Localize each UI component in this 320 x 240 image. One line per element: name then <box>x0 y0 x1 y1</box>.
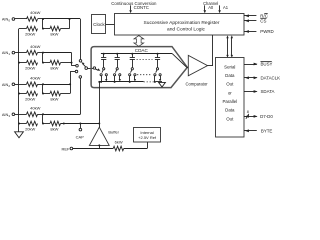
node tap channel 1 <box>42 52 44 64</box>
ground rail left <box>18 29 20 132</box>
switch for capacitor C1 <box>100 68 107 83</box>
capacitor C1 of CDAC array <box>101 53 106 68</box>
wire ground rail to 20k channel 2 <box>19 93 27 95</box>
resistor 20kW channel 3 <box>25 121 37 131</box>
comparator U2 <box>185 55 208 86</box>
mux contact channel 1 <box>76 64 79 67</box>
wire ground rail to 20k channel 1 <box>19 62 27 64</box>
mux contact channel 3 <box>79 76 82 79</box>
mux switch arm <box>81 62 86 67</box>
pin AIN1 terminal <box>2 50 15 56</box>
svg-text:20kW: 20kW <box>25 127 35 132</box>
wire 40k output to tap node channel 1 <box>38 52 44 54</box>
svg-text:Successive Approximation Regis: Successive Approximation Register <box>144 20 220 26</box>
resistor 8kW channel 3 <box>50 121 61 131</box>
wire clock to SAR <box>106 24 115 26</box>
wire channel 3 node riser to mux contact <box>43 78 81 114</box>
resistor 8kW channel 0 <box>50 26 61 36</box>
resistor 40kW channel 3 <box>27 106 41 117</box>
pin CAP terminal <box>76 123 85 140</box>
pin BYTE input <box>244 129 272 134</box>
resistor 20kW channel 2 <box>25 91 37 101</box>
svg-text:Comparator: Comparator <box>185 82 208 87</box>
wire tap to 8k channel 1 <box>43 62 50 64</box>
op-amp reference buffer <box>89 124 119 146</box>
svg-text:20kW: 20kW <box>25 66 35 71</box>
svg-text:D7-D0: D7-D0 <box>260 114 273 119</box>
svg-text:or: or <box>228 90 232 95</box>
svg-text:20kW: 20kW <box>25 32 35 37</box>
wire CDAC bottom rail to reference buffer <box>99 82 101 124</box>
resistor 6kW <box>113 139 124 150</box>
svg-text:BUSY: BUSY <box>261 62 273 67</box>
resistor 40kW channel 1 <box>27 44 41 55</box>
wire channel 0 node to mux contact <box>43 19 81 60</box>
wire tap to 8k channel 3 <box>43 123 50 125</box>
svg-text:Data: Data <box>225 108 235 113</box>
switch for capacitor C2 <box>114 68 121 83</box>
wire ground rail to 20k channel 0 <box>19 28 27 30</box>
CDAC block outline <box>91 47 187 88</box>
svg-text:20kW: 20kW <box>25 97 35 102</box>
pin A1 arrow into SAR <box>218 5 221 13</box>
wire channel 0 8k output up to input line <box>61 18 71 29</box>
svg-text:AIN0: AIN0 <box>2 17 10 23</box>
pin SDATA output <box>244 89 275 94</box>
switch for capacitor C4 <box>154 68 161 83</box>
svg-text:AIN3: AIN3 <box>2 112 10 118</box>
pin CONTC arrow into SAR <box>129 5 132 13</box>
svg-text:AIN1: AIN1 <box>2 50 10 56</box>
svg-text:40kW: 40kW <box>30 44 40 49</box>
wire AIN1 to resistor <box>15 52 27 54</box>
resistor 8kW channel 2 <box>50 91 61 101</box>
wire channel 2 8k output to riser <box>61 93 71 95</box>
mux pole <box>85 67 93 70</box>
dashed continuation switch row <box>137 74 152 76</box>
svg-text:BYTE: BYTE <box>261 129 273 134</box>
wire tap to 8k channel 2 <box>43 93 50 95</box>
pin D7-D0 parallel bus bidirectional <box>244 110 273 119</box>
resistor 40kW channel 0 <box>27 10 41 21</box>
svg-text:6kW: 6kW <box>115 139 123 144</box>
pin R/C input <box>244 14 268 19</box>
svg-text:REF: REF <box>62 146 71 151</box>
wire 6k to internal reference <box>124 142 148 149</box>
svg-text:8: 8 <box>247 110 249 114</box>
ground symbol CDAC rail <box>159 82 166 87</box>
pin BUSY output <box>244 62 273 67</box>
mux contact channel 2 <box>75 70 78 73</box>
wire 40k output to tap node channel 3 <box>38 114 44 116</box>
wire REF to 6k resistor <box>73 148 114 150</box>
capacitor C3 of CDAC array <box>130 53 135 68</box>
node buffer output on reference rail <box>98 123 100 125</box>
bus SAR to data out lines <box>226 35 233 57</box>
wire channel 1 node riser to mux contact <box>43 53 76 66</box>
pin PWRD input <box>244 29 274 34</box>
wire channel 3 8k output / reference rail <box>61 123 100 125</box>
output register Serial Data Out or Parallel Data Out <box>216 58 245 138</box>
pin AIN3 terminal <box>2 112 15 118</box>
node tap channel 2 <box>42 83 44 94</box>
CDAC top plate rail to comparator <box>101 54 188 68</box>
svg-text:Buffer: Buffer <box>108 129 119 134</box>
capacitor C2 of CDAC array <box>115 53 120 68</box>
svg-text:40kW: 40kW <box>30 106 40 111</box>
wire ground rail to 20k channel 3 <box>19 123 27 125</box>
svg-text:CS: CS <box>260 19 266 24</box>
svg-text:Out: Out <box>226 116 234 121</box>
svg-text:AIN2: AIN2 <box>2 82 10 88</box>
pin AIN2 terminal <box>2 82 15 88</box>
wire AIN3 to resistor <box>15 114 27 116</box>
svg-text:Serial: Serial <box>224 64 235 69</box>
svg-text:40kW: 40kW <box>30 10 40 15</box>
svg-text:8kW: 8kW <box>50 97 58 102</box>
svg-text:CAP: CAP <box>76 134 85 139</box>
svg-text:CDAC: CDAC <box>135 48 149 53</box>
wire 40k output to tap node channel 0 <box>38 18 44 20</box>
pin CS input <box>244 18 267 23</box>
svg-text:40kW: 40kW <box>30 76 40 81</box>
svg-text:8kW: 8kW <box>50 127 58 132</box>
svg-text:8kW: 8kW <box>50 66 58 71</box>
svg-text:PWRD: PWRD <box>260 29 273 34</box>
wire 40k output to tap node channel 2 <box>38 84 44 86</box>
internal 2.5V reference block <box>134 128 161 143</box>
ground symbol analog ground <box>15 132 24 138</box>
svg-text:CONTC: CONTC <box>134 5 149 10</box>
svg-text:Data: Data <box>225 73 235 78</box>
wire AIN0 to resistor <box>15 18 27 20</box>
dashed continuation capacitor array <box>137 58 153 60</box>
mux contact channel 0 <box>79 60 82 63</box>
pin REF terminal <box>62 146 73 151</box>
svg-text:A1: A1 <box>223 5 229 10</box>
capacitor C4 of CDAC array <box>155 53 160 68</box>
resistor 20kW channel 1 <box>25 60 37 70</box>
svg-text:+2.5V Ref: +2.5V Ref <box>138 135 157 140</box>
wire buffer input from REF line <box>98 144 100 148</box>
pin AIN0 terminal <box>2 17 15 23</box>
pin DATACLK bidirectional <box>244 76 280 81</box>
svg-text:Parallel: Parallel <box>222 99 237 104</box>
svg-text:Out: Out <box>226 82 234 87</box>
svg-text:SDATA: SDATA <box>261 89 275 94</box>
resistor 8kW channel 1 <box>50 60 61 70</box>
bus arrow SAR to CDAC <box>134 36 144 47</box>
SAR U1 Successive Approximation Register and Control Logic <box>115 14 245 36</box>
node tap channel 3 <box>42 113 44 124</box>
clock block <box>92 15 106 34</box>
svg-text:and Control Logic: and Control Logic <box>167 27 206 33</box>
pin A0 arrow into SAR <box>204 5 207 13</box>
svg-text:DATACLK: DATACLK <box>261 76 281 81</box>
svg-text:Clock: Clock <box>93 22 105 27</box>
resistor 40kW channel 2 <box>27 76 41 87</box>
svg-text:8kW: 8kW <box>50 32 58 37</box>
wire channel 1 8k output to riser <box>61 62 72 64</box>
CDAC bottom reference rail <box>98 81 162 83</box>
CDAC input sampling switch <box>93 67 100 72</box>
wire tap to 8k channel 0 <box>43 28 50 30</box>
svg-text:A0: A0 <box>208 5 214 10</box>
node tap channel 0 <box>42 18 44 30</box>
wire channel 2 node riser to mux contact <box>43 72 75 94</box>
switch for capacitor C3 <box>129 68 136 83</box>
resistor 20kW channel 0 <box>25 26 37 36</box>
wire comparator output to SAR <box>208 35 214 66</box>
wire AIN2 to resistor <box>15 84 27 86</box>
